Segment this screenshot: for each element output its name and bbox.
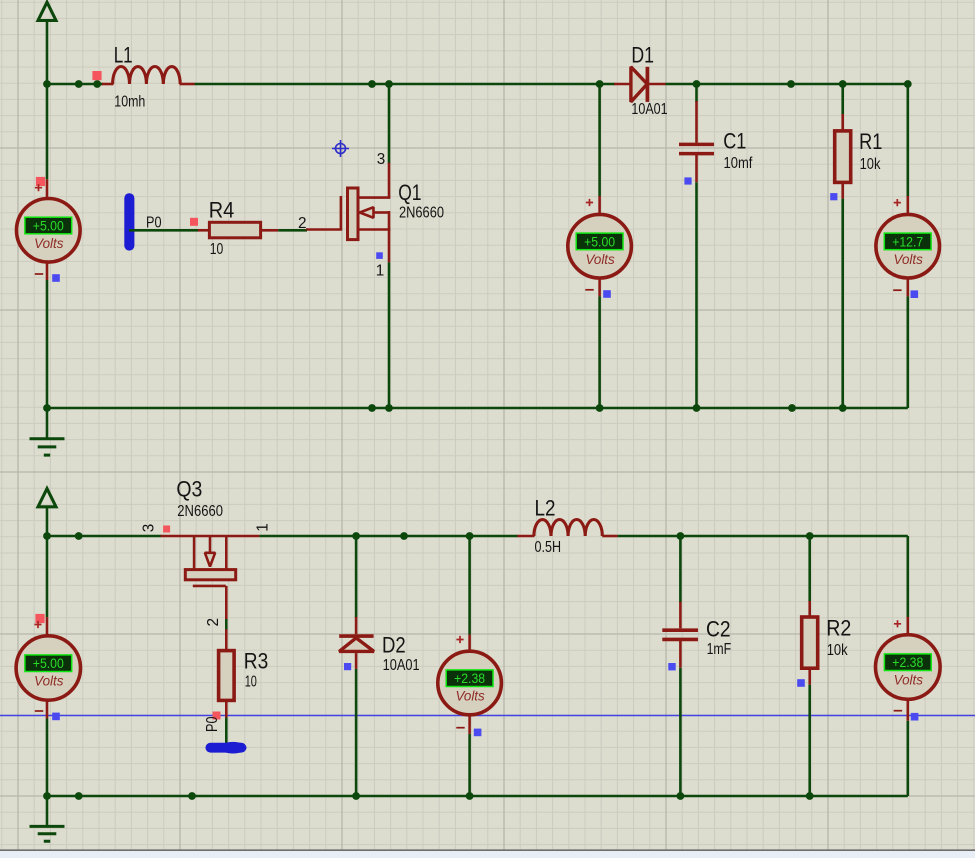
svg-text:10k: 10k (827, 642, 848, 659)
svg-text:D1: D1 (631, 42, 654, 67)
svg-text:D2: D2 (382, 632, 406, 657)
svg-text:+2.38: +2.38 (454, 671, 485, 686)
svg-text:1: 1 (376, 262, 385, 279)
svg-text:+5.00: +5.00 (584, 234, 615, 249)
svg-text:10mf: 10mf (724, 155, 754, 172)
svg-text:C2: C2 (706, 617, 731, 642)
svg-text:R3: R3 (244, 648, 268, 673)
svg-text:L1: L1 (114, 42, 133, 67)
svg-text:+5.00: +5.00 (33, 219, 64, 234)
svg-text:Volts: Volts (894, 673, 924, 688)
svg-text:10A01: 10A01 (631, 101, 667, 118)
svg-text:2: 2 (205, 618, 222, 627)
svg-text:10A01: 10A01 (383, 657, 420, 674)
svg-text:R2: R2 (826, 616, 851, 641)
svg-text:Volts: Volts (455, 689, 485, 704)
svg-text:3: 3 (141, 524, 158, 533)
svg-text:1: 1 (254, 523, 271, 532)
svg-text:R1: R1 (859, 129, 882, 154)
svg-text:2N6660: 2N6660 (177, 503, 223, 520)
svg-text:Volts: Volts (34, 236, 64, 251)
svg-text:P0: P0 (146, 215, 162, 232)
svg-text:Volts: Volts (585, 252, 615, 267)
svg-text:Volts: Volts (34, 674, 64, 689)
svg-text:10: 10 (245, 673, 257, 690)
svg-text:Volts: Volts (894, 252, 924, 267)
svg-text:+2.38: +2.38 (892, 655, 923, 670)
svg-text:10: 10 (210, 241, 224, 258)
svg-text:10k: 10k (860, 156, 881, 173)
svg-text:2: 2 (298, 215, 307, 232)
svg-text:L2: L2 (535, 496, 556, 521)
svg-text:1mF: 1mF (707, 641, 732, 658)
svg-text:+12.7: +12.7 (892, 234, 923, 249)
svg-text:2N6660: 2N6660 (399, 205, 444, 222)
svg-text:Q1: Q1 (398, 180, 421, 205)
svg-text:3: 3 (377, 151, 386, 168)
svg-text:0.5H: 0.5H (535, 539, 562, 556)
svg-text:Q3: Q3 (176, 477, 202, 502)
svg-text:C1: C1 (723, 129, 746, 154)
svg-text:10mh: 10mh (114, 94, 145, 111)
svg-text:+5.00: +5.00 (33, 656, 64, 671)
svg-text:P0: P0 (204, 716, 221, 732)
svg-text:R4: R4 (209, 197, 235, 222)
